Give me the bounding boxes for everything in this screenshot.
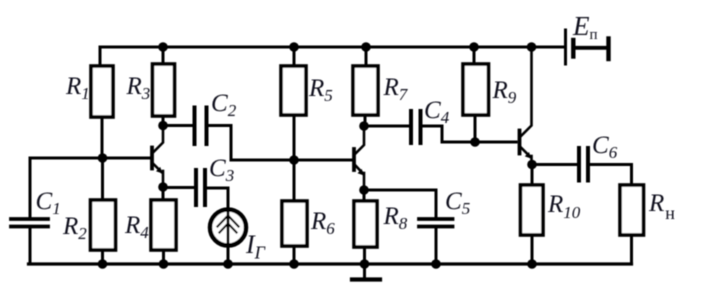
node R5 top junction	[289, 42, 299, 52]
wire R2 top	[101, 158, 104, 200]
label C6	[592, 132, 618, 162]
svg-text:R3: R3	[126, 73, 151, 103]
svg-text:R2: R2	[62, 213, 87, 243]
label C4	[424, 97, 450, 127]
wire C1 branch vertical top	[29, 158, 32, 217]
wire R6 bottom	[293, 246, 296, 264]
wire R7 top drop	[365, 47, 368, 66]
svg-text:C2: C2	[211, 90, 237, 120]
wire R1 bottom to base node	[101, 117, 104, 158]
wire R8 top	[363, 190, 366, 201]
capacitor C6	[579, 148, 588, 181]
resistor R10	[521, 185, 544, 235]
node emitter3 junction	[527, 160, 537, 170]
wire R8 bottom	[363, 247, 366, 264]
wire R4 bottom	[162, 250, 165, 264]
svg-text:R1: R1	[65, 73, 90, 103]
wire input base line	[30, 157, 150, 160]
node collector2 junction	[359, 121, 369, 131]
wire C5 bottom to rail	[435, 229, 438, 265]
wire R3 top drop	[162, 47, 165, 64]
wire R7 bottom to collector2	[364, 115, 367, 126]
svg-text:R6: R6	[310, 208, 335, 238]
svg-text:C5: C5	[445, 188, 470, 218]
wire C6 to RL	[590, 165, 632, 186]
wire C2 to base2	[208, 126, 352, 161]
label R10	[547, 191, 581, 222]
node collector1 junction	[158, 121, 168, 131]
node R7 top junction	[361, 42, 371, 52]
svg-text:R4: R4	[124, 212, 149, 242]
wire collector1 to C2	[163, 124, 193, 127]
wire emitter1 to C3	[163, 186, 194, 189]
label R2	[62, 213, 87, 243]
wire IG bottom	[227, 245, 230, 264]
svg-text:C1: C1	[36, 188, 61, 218]
node R6 bottom junction	[289, 259, 299, 269]
node R4 bottom junction	[159, 259, 169, 269]
label R1	[65, 73, 90, 103]
resistor R6	[282, 201, 307, 246]
capacitor C2	[195, 108, 207, 145]
svg-text:R8: R8	[383, 203, 408, 233]
node emitter1 junction	[158, 182, 168, 192]
resistor R1	[91, 66, 113, 117]
label R5	[308, 75, 333, 105]
svg-text:R9: R9	[492, 77, 517, 107]
label R4	[124, 212, 149, 242]
svg-text:Rн: Rн	[648, 190, 675, 223]
wire R6 top	[293, 160, 296, 201]
resistor R4	[151, 200, 176, 250]
resistor R7	[353, 66, 378, 115]
resistor R8	[354, 201, 377, 247]
battery EP	[566, 30, 609, 64]
node R3 top junction	[158, 42, 168, 52]
svg-text:C4: C4	[424, 97, 450, 127]
transistor Q3	[520, 49, 532, 163]
capacitor C5	[419, 219, 453, 227]
wire R1 top drop	[99, 47, 102, 66]
wire R9 top drop	[473, 47, 476, 64]
node C4-R9 junction	[470, 137, 480, 147]
node emitter2 junction	[359, 185, 369, 195]
label EP	[572, 11, 598, 43]
label R7	[383, 74, 409, 104]
wire R10 bottom	[531, 235, 534, 264]
node R9 top junction	[469, 42, 479, 52]
resistor R9	[463, 64, 489, 115]
node base2 junction	[289, 155, 299, 165]
wire emitter3 to C6	[532, 163, 577, 166]
resistor RL	[620, 185, 644, 235]
wire R4 top	[162, 187, 165, 200]
node Q3 collector top junction	[527, 42, 537, 52]
wire R5 top drop	[293, 47, 296, 66]
wire R3 bottom to collector node	[162, 116, 165, 126]
svg-text:R7: R7	[383, 74, 409, 104]
wire RL bottom	[630, 235, 633, 264]
wire R2 bottom	[101, 250, 104, 264]
resistor R2	[91, 200, 116, 250]
label R3	[126, 73, 151, 103]
svg-text:R5: R5	[308, 75, 333, 105]
wire C3 to current source	[207, 188, 229, 209]
wire R5 bottom to base2 line	[293, 115, 296, 160]
node R10 bottom junction	[527, 259, 537, 269]
resistor R3	[153, 64, 175, 116]
svg-text:R10: R10	[547, 191, 581, 222]
capacitor C1	[11, 219, 48, 227]
wire top supply rail	[100, 46, 563, 49]
capacitor C4	[411, 111, 421, 143]
transistor Q2	[354, 128, 364, 188]
capacitor C3	[196, 170, 205, 205]
label R6	[310, 208, 335, 238]
transistor Q1	[152, 128, 163, 185]
label RL	[648, 190, 675, 223]
label C1	[36, 188, 61, 218]
resistor R5	[281, 66, 306, 115]
label C2	[211, 90, 237, 120]
label C5	[445, 188, 470, 218]
svg-text:IГ: IГ	[245, 230, 266, 263]
label C3	[209, 155, 234, 185]
svg-text:Eп: Eп	[572, 11, 598, 43]
label R9	[492, 77, 517, 107]
wire R10 top	[531, 165, 534, 186]
label IG	[245, 230, 266, 263]
node base1 junction	[98, 153, 108, 163]
wire C1 bottom to rail	[29, 229, 32, 265]
node R8 bottom junction	[360, 259, 370, 269]
node R2 bottom junction	[98, 259, 108, 269]
svg-text:C6: C6	[592, 132, 618, 162]
wire C4 to base3	[422, 126, 516, 142]
ground	[352, 264, 380, 280]
wire emitter2 to C5	[364, 190, 436, 217]
wire R9 bottom to C4 node	[474, 115, 477, 142]
node IG bottom junction	[223, 259, 233, 269]
current source IG	[210, 210, 246, 246]
wire bottom rail	[29, 262, 632, 265]
wire collector2 to C4	[364, 125, 409, 128]
node C5 bottom junction	[431, 259, 441, 269]
label R8	[383, 203, 408, 233]
